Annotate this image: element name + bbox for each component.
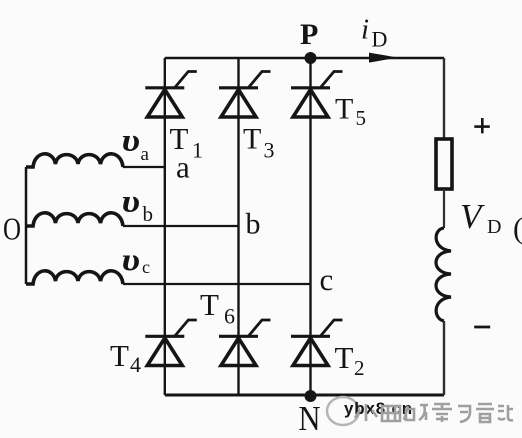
svg-text:N: N bbox=[299, 399, 321, 438]
thyristor T2 bbox=[291, 320, 343, 366]
svg-text:2: 2 bbox=[354, 356, 365, 380]
wire resistor to coil bbox=[443, 189, 445, 228]
inductor winding phase a bbox=[26, 154, 123, 167]
svg-text:5: 5 bbox=[356, 106, 367, 130]
wire top rail P bbox=[165, 57, 444, 60]
svg-text:3: 3 bbox=[264, 138, 275, 163]
inductor load coil bbox=[436, 228, 451, 321]
wire vc to node c bbox=[123, 283, 311, 285]
thyristor T5 bbox=[291, 72, 343, 118]
svg-text:c: c bbox=[142, 257, 150, 277]
svg-text:V: V bbox=[460, 197, 485, 236]
svg-text:(: ( bbox=[513, 212, 522, 245]
svg-text:4: 4 bbox=[130, 352, 141, 377]
svg-text:O: O bbox=[3, 211, 21, 247]
thyristor T4 bbox=[145, 320, 197, 366]
current arrow iD bbox=[369, 53, 398, 63]
minus sign bbox=[474, 326, 490, 329]
wire right column top bbox=[443, 58, 445, 139]
wire coil to bottom rail bbox=[443, 321, 445, 395]
plus sign bbox=[474, 118, 490, 133]
resistor load bbox=[436, 139, 452, 189]
node N junction dot bbox=[305, 390, 317, 402]
svg-text:b: b bbox=[246, 208, 261, 241]
thyristor T6 bbox=[219, 320, 271, 366]
svg-text:υ: υ bbox=[122, 183, 141, 219]
svg-text:P: P bbox=[300, 18, 318, 51]
inductor winding phase b bbox=[26, 213, 123, 226]
wire neutral bus bbox=[25, 167, 28, 284]
svg-text:6: 6 bbox=[224, 304, 235, 329]
svg-text:b: b bbox=[143, 202, 154, 226]
svg-text:T: T bbox=[335, 340, 354, 375]
watermark chinese characters bbox=[355, 404, 513, 422]
svg-text:D: D bbox=[487, 216, 501, 238]
wire bottom rail N bbox=[165, 394, 444, 397]
thyristor T3 bbox=[219, 72, 271, 118]
inductor winding phase c bbox=[26, 271, 123, 284]
svg-text:T: T bbox=[200, 287, 219, 322]
node P junction dot bbox=[305, 52, 317, 64]
svg-text:υ: υ bbox=[122, 122, 141, 158]
watermark scribble circle bbox=[327, 397, 359, 425]
svg-text:ybx8.cn: ybx8.cn bbox=[344, 399, 413, 418]
svg-text:a: a bbox=[141, 144, 150, 165]
wire va to node a bbox=[123, 166, 166, 168]
svg-text:υ: υ bbox=[122, 241, 141, 277]
thyristor T1 bbox=[145, 72, 197, 118]
svg-text:1: 1 bbox=[192, 138, 203, 163]
wire column a bbox=[164, 58, 166, 395]
svg-text:i: i bbox=[361, 14, 369, 46]
svg-text:c: c bbox=[320, 262, 334, 297]
svg-text:D: D bbox=[372, 27, 388, 52]
svg-text:a: a bbox=[176, 150, 190, 185]
svg-text:T: T bbox=[243, 123, 261, 156]
svg-text:T: T bbox=[335, 93, 353, 126]
wire column c bbox=[309, 58, 311, 395]
wire column b bbox=[237, 58, 239, 395]
wire vb to node b bbox=[123, 225, 239, 227]
svg-text:T: T bbox=[110, 338, 129, 373]
